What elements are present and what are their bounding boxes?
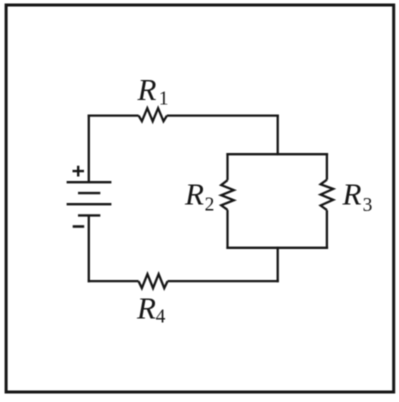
svg-text:2: 2	[205, 194, 215, 215]
svg-text:R: R	[136, 291, 156, 326]
wire: R2 branch lower segment	[226, 210, 228, 249]
resistor R3	[321, 180, 334, 210]
wire: top rail left segment	[88, 114, 139, 116]
wire: parallel combination bottom rail	[226, 247, 328, 249]
wire: R2 branch upper segment	[226, 153, 228, 180]
label R2	[184, 177, 214, 216]
label R4	[136, 291, 166, 328]
battery plate long (top, +)	[67, 181, 112, 183]
battery plate short	[78, 192, 100, 194]
wire: parallel combination top rail	[226, 153, 328, 155]
battery	[67, 182, 112, 215]
battery plate long	[67, 203, 112, 205]
resistor R4	[139, 274, 168, 288]
svg-text:R: R	[184, 177, 204, 212]
battery plate short (bottom, -)	[78, 214, 100, 216]
wire: bottom rail right segment	[168, 280, 279, 282]
resistor R2	[221, 180, 234, 210]
resistor R1	[139, 108, 167, 121]
wire: left vertical from top-left corner down to battery + plate	[88, 115, 90, 183]
wire: top rail right segment	[167, 114, 279, 116]
battery + terminal label	[73, 166, 85, 177]
label R1	[137, 72, 169, 110]
wire: bottom rail left segment	[88, 280, 139, 282]
label R3	[342, 177, 373, 217]
wire: R3 branch lower segment	[326, 210, 328, 249]
svg-text:R: R	[342, 177, 362, 212]
wire: left vertical from battery - plate down to bottom-left corner	[88, 215, 90, 282]
svg-text:R: R	[137, 72, 157, 107]
wire: middle vertical from parallel bottom rail down to bottom rail	[277, 247, 279, 283]
wire: right vertical from top rail down to parallel top rail	[277, 116, 279, 156]
wire: R3 branch upper segment	[326, 153, 328, 180]
svg-text:1: 1	[159, 89, 169, 110]
svg-text:3: 3	[363, 195, 373, 216]
svg-text:4: 4	[156, 307, 166, 328]
battery - terminal label	[73, 225, 85, 228]
